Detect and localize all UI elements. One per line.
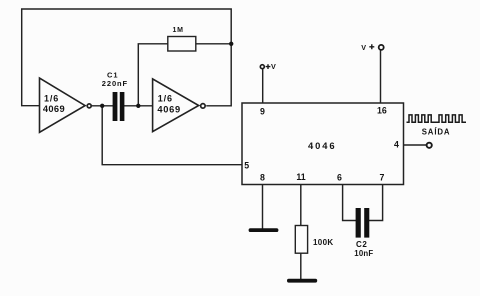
svg-text:220nF: 220nF bbox=[102, 79, 128, 88]
svg-text:8: 8 bbox=[260, 173, 265, 183]
svg-text:5: 5 bbox=[244, 160, 249, 170]
svg-text:7: 7 bbox=[380, 173, 385, 183]
svg-text:4046: 4046 bbox=[308, 140, 336, 151]
svg-text:1/6: 1/6 bbox=[158, 94, 173, 104]
svg-text:C2: C2 bbox=[356, 240, 367, 249]
svg-text:100K: 100K bbox=[313, 238, 334, 247]
svg-text:SAÍDA: SAÍDA bbox=[422, 128, 451, 137]
svg-text:10nF: 10nF bbox=[354, 249, 373, 258]
svg-text:1M: 1M bbox=[173, 27, 184, 34]
svg-text:6: 6 bbox=[337, 173, 342, 183]
svg-text:4069: 4069 bbox=[157, 105, 180, 115]
svg-text:4: 4 bbox=[394, 139, 399, 149]
svg-text:V: V bbox=[361, 43, 366, 52]
svg-text:1/6: 1/6 bbox=[44, 93, 59, 103]
svg-text:16: 16 bbox=[377, 106, 387, 116]
svg-text:V: V bbox=[271, 62, 276, 71]
svg-text:9: 9 bbox=[260, 106, 265, 116]
svg-text:4069: 4069 bbox=[43, 104, 65, 114]
svg-text:11: 11 bbox=[296, 172, 305, 182]
